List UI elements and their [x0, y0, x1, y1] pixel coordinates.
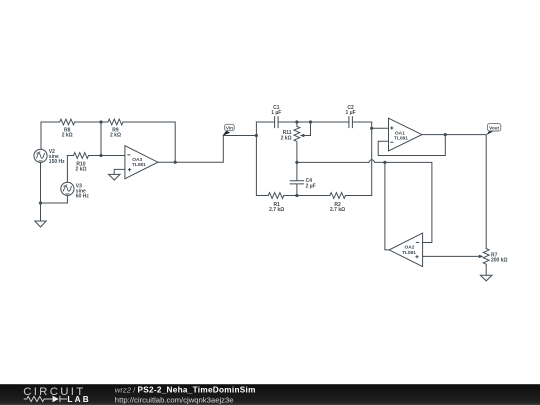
op-amp OA2	[389, 233, 422, 267]
wire twin-T top rail	[256, 121, 371, 123]
svg-text:LAB: LAB	[67, 395, 90, 404]
svg-text:60 Hz: 60 Hz	[76, 194, 90, 200]
label R7 value	[491, 253, 508, 264]
potentiometer R11	[294, 122, 311, 162]
resistor R2	[330, 193, 346, 199]
label R11 value	[281, 130, 292, 141]
label V2 value	[49, 149, 65, 165]
label OA3	[132, 157, 146, 168]
svg-text:2 kΩ: 2 kΩ	[110, 133, 121, 139]
junction dot (R11 top)	[295, 120, 298, 123]
svg-text:TL081: TL081	[132, 162, 146, 168]
label R10 value	[76, 161, 87, 172]
resistor R1	[268, 193, 284, 199]
CircuitLab logo	[23, 386, 91, 404]
svg-text:http://circuitlab.com/cjwqnk3a: http://circuitlab.com/cjwqnk3aejz3e	[115, 395, 234, 404]
wire middle rail with hop	[297, 160, 432, 243]
svg-text:TL081: TL081	[402, 250, 416, 256]
op-amp OA1	[389, 118, 422, 151]
potentiometer R7	[423, 249, 490, 276]
label C4 value	[306, 178, 316, 189]
junction dot (OA1 output)	[444, 133, 447, 136]
svg-text:1 µF: 1 µF	[346, 110, 356, 116]
svg-text:wrz2 / PS2-2_Neha_TimeDominSim: wrz2 / PS2-2_Neha_TimeDominSim	[115, 386, 256, 395]
resistor R9	[108, 119, 123, 125]
junction dot (C4 bottom)	[295, 194, 298, 197]
node Vout	[486, 124, 501, 135]
junction dot	[39, 201, 42, 204]
svg-text:1 µF: 1 µF	[271, 110, 281, 116]
svg-text:2.7 kΩ: 2.7 kΩ	[330, 207, 345, 213]
junction dot (OA1 + tee)	[370, 127, 373, 130]
junction dot (Vin tee)	[255, 134, 258, 137]
label R9 value	[110, 127, 121, 138]
junction dot (OA2 output tee)	[383, 161, 386, 164]
wire V3 leads	[66, 156, 68, 204]
label R1 value	[269, 202, 284, 213]
svg-text:OA3: OA3	[132, 157, 142, 163]
capacitor C1	[275, 117, 279, 128]
voltage source V3	[61, 182, 74, 195]
svg-text:2 kΩ: 2 kΩ	[281, 136, 292, 142]
resistor R10	[67, 153, 101, 159]
op-amp OA3	[125, 146, 158, 179]
label C1 value	[271, 105, 281, 116]
node Vin	[223, 124, 235, 135]
footer title text	[115, 386, 256, 405]
label OA2	[402, 245, 416, 256]
wire OA3 output to Vin	[158, 136, 257, 163]
wire twin-T right vertical	[371, 122, 373, 196]
svg-text:Vout: Vout	[489, 125, 499, 130]
svg-text:2.7 kΩ: 2.7 kΩ	[269, 207, 284, 213]
svg-text:Vin: Vin	[226, 125, 233, 130]
svg-text:150 Hz: 150 Hz	[49, 159, 65, 165]
svg-text:200 kΩ: 200 kΩ	[491, 257, 508, 263]
junction dot (R11/C4 node)	[295, 161, 298, 164]
capacitor C2	[349, 117, 353, 128]
wire V2 to ground rail	[41, 162, 68, 203]
junction dot	[99, 154, 102, 157]
svg-text:TL081: TL081	[394, 136, 408, 142]
footer bar	[0, 384, 540, 405]
wire OA1 output to Vout	[422, 135, 486, 249]
label R8 value	[62, 127, 73, 138]
ground (below R7)	[480, 275, 492, 281]
ground (bottom-left)	[35, 203, 46, 227]
wire top-left net (R8 leads)	[41, 122, 101, 149]
voltage source V2	[34, 149, 47, 162]
junction dot (OA3 output)	[174, 161, 177, 164]
svg-text:2 µF: 2 µF	[306, 183, 316, 189]
label OA1	[394, 130, 408, 141]
wire R9 to feedback vertical	[101, 122, 175, 162]
ground (OA3 + input)	[109, 169, 125, 180]
label C2 value	[346, 105, 356, 116]
wire OA1 + input	[372, 127, 389, 129]
wire twin-T left vertical	[255, 122, 257, 196]
svg-text:OA1: OA1	[395, 130, 405, 136]
wire inverting-input vertical	[101, 122, 125, 156]
svg-text:2 kΩ: 2 kΩ	[62, 133, 73, 139]
wire OA2 output	[385, 162, 389, 250]
label V3 value	[76, 183, 90, 199]
resistor R8	[60, 119, 75, 125]
junction dot (R11 wiper tap)	[309, 120, 312, 123]
wire OA1 feedback	[378, 135, 445, 156]
wire twin-T bottom rail	[256, 195, 371, 197]
svg-text:OA2: OA2	[405, 245, 415, 251]
capacitor C4	[290, 162, 303, 195]
label R2 value	[330, 202, 345, 213]
svg-text:2 kΩ: 2 kΩ	[76, 167, 87, 173]
junction dot	[99, 120, 102, 123]
